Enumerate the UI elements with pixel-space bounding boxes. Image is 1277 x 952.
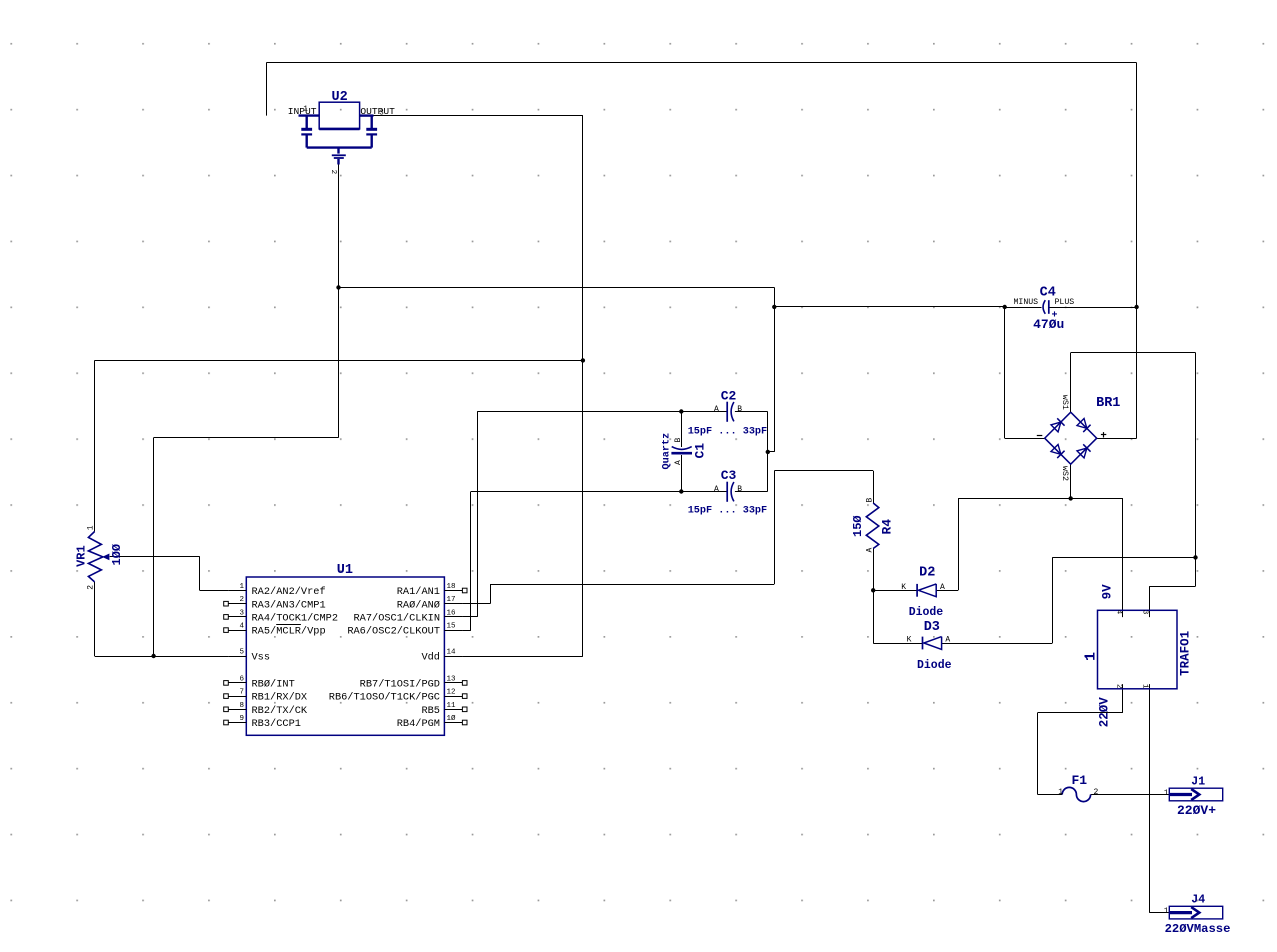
svg-text:RA2/AN2/Vref: RA2/AN2/Vref — [252, 586, 326, 598]
svg-text:RB3/CCP1: RB3/CCP1 — [252, 718, 301, 730]
svg-text:wS2: wS2 — [1060, 466, 1070, 481]
svg-text:RAØ/ANØ: RAØ/ANØ — [397, 599, 440, 611]
svg-text:RB2/TX/CK: RB2/TX/CK — [252, 705, 308, 717]
svg-text:A: A — [940, 583, 945, 592]
svg-text:9V: 9V — [1101, 584, 1115, 600]
svg-text:2: 2 — [87, 585, 96, 590]
svg-text:4: 4 — [1114, 610, 1122, 615]
svg-text:Vdd: Vdd — [421, 652, 440, 664]
svg-text:Diode: Diode — [917, 659, 952, 672]
svg-text:11: 11 — [447, 702, 457, 710]
svg-text:RB6/T1OSO/T1CK/PGC: RB6/T1OSO/T1CK/PGC — [329, 692, 440, 704]
svg-text:22ØV: 22ØV — [1098, 697, 1112, 728]
svg-text:22ØVMasse: 22ØVMasse — [1165, 922, 1231, 936]
svg-text:15: 15 — [447, 623, 457, 631]
svg-text:F1: F1 — [1072, 773, 1088, 788]
svg-text:C1: C1 — [692, 443, 707, 459]
svg-text:K: K — [907, 636, 912, 645]
svg-text:1: 1 — [239, 583, 244, 591]
svg-text:2: 2 — [1094, 788, 1099, 797]
svg-text:INPUT: INPUT — [288, 106, 317, 117]
svg-text:5: 5 — [239, 649, 244, 657]
svg-text:3: 3 — [239, 609, 244, 617]
svg-text:4: 4 — [239, 623, 244, 631]
svg-text:MINUS: MINUS — [1014, 298, 1039, 307]
svg-text:1: 1 — [1058, 788, 1063, 797]
svg-text:A: A — [945, 636, 950, 645]
svg-text:RA6/OSC2/CLKOUT: RA6/OSC2/CLKOUT — [347, 626, 440, 638]
svg-text:3: 3 — [379, 109, 384, 117]
svg-text:13: 13 — [447, 675, 457, 683]
svg-text:15pF ... 33pF: 15pF ... 33pF — [688, 506, 767, 517]
svg-text:47Øu: 47Øu — [1033, 317, 1064, 332]
svg-text:RA3/AN3/CMP1: RA3/AN3/CMP1 — [252, 599, 326, 611]
svg-text:RB5: RB5 — [421, 705, 440, 717]
svg-text:1: 1 — [303, 106, 308, 114]
svg-text:1: 1 — [1164, 789, 1169, 798]
svg-text:RB1/RX/DX: RB1/RX/DX — [252, 692, 308, 704]
svg-text:1: 1 — [1164, 907, 1169, 916]
svg-text:D2: D2 — [919, 565, 935, 580]
svg-text:Diode: Diode — [909, 606, 944, 619]
svg-text:U1: U1 — [337, 563, 353, 578]
svg-text:wS1: wS1 — [1060, 395, 1070, 410]
svg-text:K: K — [901, 583, 906, 592]
svg-text:3: 3 — [1141, 610, 1149, 615]
svg-text:Vss: Vss — [252, 652, 271, 664]
svg-text:RA4/TOCK1/CMP2: RA4/TOCK1/CMP2 — [252, 613, 339, 625]
svg-text:16: 16 — [447, 609, 457, 617]
svg-text:RB7/T1OSI/PGD: RB7/T1OSI/PGD — [360, 679, 440, 691]
svg-text:C4: C4 — [1040, 286, 1056, 301]
svg-text:B: B — [674, 438, 683, 443]
svg-text:A: A — [714, 405, 719, 414]
svg-text:1: 1 — [1141, 684, 1149, 689]
svg-text:7: 7 — [239, 689, 244, 697]
svg-text:1: 1 — [1083, 652, 1100, 661]
svg-text:J1: J1 — [1191, 776, 1205, 789]
svg-text:8: 8 — [239, 702, 244, 710]
svg-text:1Ø: 1Ø — [447, 714, 457, 723]
svg-text:D3: D3 — [924, 620, 940, 635]
svg-text:PLUS: PLUS — [1055, 298, 1075, 307]
svg-text:9: 9 — [239, 715, 244, 723]
svg-text:17: 17 — [447, 596, 456, 604]
svg-text:A: A — [674, 460, 683, 465]
svg-text:14: 14 — [447, 649, 457, 657]
svg-text:18: 18 — [447, 583, 456, 591]
svg-text:1: 1 — [87, 525, 96, 530]
svg-text:C2: C2 — [721, 389, 737, 404]
svg-text:A: A — [866, 548, 875, 553]
svg-text:A: A — [714, 485, 719, 494]
svg-text:22ØV+: 22ØV+ — [1177, 803, 1216, 818]
svg-text:2: 2 — [1114, 684, 1122, 689]
svg-text:BR1: BR1 — [1096, 396, 1120, 411]
svg-text:B: B — [737, 405, 742, 414]
svg-text:U2: U2 — [332, 90, 348, 105]
svg-text:VR1: VR1 — [75, 545, 89, 567]
svg-text:2: 2 — [329, 170, 337, 175]
svg-text:TRAFO1: TRAFO1 — [1179, 631, 1193, 676]
svg-text:1ØØ: 1ØØ — [110, 544, 124, 566]
svg-text:15pF ... 33pF: 15pF ... 33pF — [688, 426, 767, 437]
svg-text:RB4/PGM: RB4/PGM — [397, 718, 440, 730]
svg-text:B: B — [866, 498, 875, 503]
svg-text:RA7/OSC1/CLKIN: RA7/OSC1/CLKIN — [353, 613, 440, 625]
svg-text:RA1/AN1: RA1/AN1 — [397, 586, 440, 598]
svg-text:15Ø: 15Ø — [851, 515, 865, 537]
svg-text:C3: C3 — [721, 468, 737, 483]
svg-text:Quartz: Quartz — [662, 433, 673, 470]
svg-text:B: B — [737, 485, 742, 494]
svg-text:12: 12 — [447, 689, 456, 697]
svg-text:RBØ/INT: RBØ/INT — [252, 679, 295, 691]
svg-text:J4: J4 — [1191, 894, 1205, 907]
svg-text:6: 6 — [239, 675, 244, 683]
svg-text:2: 2 — [239, 596, 244, 604]
svg-text:OUTPUT: OUTPUT — [360, 106, 395, 117]
svg-text:RA5/MCLR/Vpp: RA5/MCLR/Vpp — [252, 626, 326, 638]
svg-text:R4: R4 — [880, 519, 895, 535]
